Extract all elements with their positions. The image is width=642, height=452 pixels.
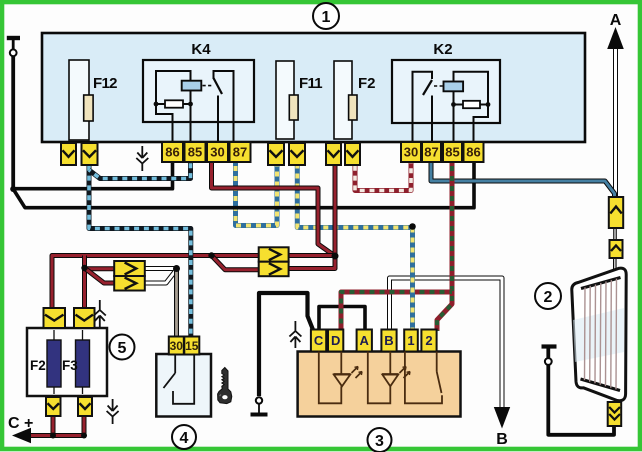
wire red-green K2-85 down to switch terminal 2	[437, 156, 452, 331]
connector block5 bottom D	[78, 397, 92, 416]
terminal 87 of K2	[422, 142, 441, 162]
svg-text:F2: F2	[30, 358, 46, 373]
svg-text:2: 2	[425, 333, 432, 348]
ground symbol block5 top	[94, 300, 106, 327]
fuse holder lines	[54, 330, 83, 394]
wire yellow-blue K4-87 to fuse F11 connector	[236, 156, 278, 226]
wire red junction to pack C1 bottom	[85, 268, 115, 283]
wire red-white fuse F2 connector to K2-30	[355, 156, 411, 191]
connector under F2 left	[326, 143, 341, 165]
wire white from switch pack C1 bottom to junction	[144, 270, 177, 284]
wire blue-black connector U2 down to ignition 15	[89, 156, 191, 340]
body ground top-left	[7, 38, 20, 56]
wire black element to body ground	[548, 348, 614, 435]
switch contact cell 1-2	[405, 352, 442, 404]
wire black ground to K2-86	[13, 156, 474, 208]
svg-text:86: 86	[165, 145, 179, 160]
terminal 85 of K2	[443, 142, 462, 162]
wire white from switch pack C1 top to junction (ignition feed)	[144, 266, 177, 271]
relay K4	[143, 41, 254, 142]
svg-text:1: 1	[407, 333, 414, 348]
svg-text:2: 2	[544, 289, 553, 306]
fuse F2 in block 5	[47, 340, 61, 387]
svg-text:F12: F12	[93, 75, 117, 92]
wire red K4-30 down to junction	[212, 156, 336, 256]
arrow C+ to battery	[8, 415, 33, 443]
wire black bridge C to A on switch 3	[319, 307, 365, 332]
connector U1 under F12	[61, 143, 76, 165]
node 5 circle label	[110, 335, 135, 360]
svg-text:F3: F3	[62, 358, 78, 373]
wire red main feed bus	[52, 256, 260, 311]
indicator LED cell A-B	[368, 352, 410, 404]
wire white from connector B of switch 3 to point B	[390, 278, 503, 408]
terminal 85 of K4	[185, 142, 206, 162]
fuse F3 in block 5	[76, 340, 90, 387]
junction dot red bus at C2	[208, 252, 214, 258]
terminal A of switch 3	[357, 330, 372, 352]
element grid lines	[585, 279, 617, 390]
indicator LED cell C-D	[319, 352, 362, 404]
connector under F11 right	[289, 143, 305, 165]
wire red junction into pack C2 bottom right	[288, 256, 335, 269]
junction dot red right	[332, 253, 339, 260]
connector U2 under F12	[82, 143, 98, 165]
terminal 30 of K4	[207, 142, 228, 162]
svg-text:5: 5	[118, 340, 127, 357]
arrow B	[494, 407, 510, 448]
wire red bus to fuse block connector B	[82, 256, 87, 311]
svg-text:4: 4	[180, 430, 189, 447]
wire red-green branch to switch terminal D	[341, 292, 452, 331]
junction dot white-grey	[173, 265, 180, 272]
wire link element connectors	[613, 228, 617, 273]
wire black switch 3 C to body ground	[259, 293, 314, 396]
connector under F2 right	[345, 143, 360, 165]
connector block5 top A	[44, 308, 66, 328]
connector pack C1 top	[114, 261, 145, 276]
terminal C of switch 3	[311, 330, 326, 352]
svg-text:30: 30	[170, 339, 184, 353]
wire white from point A down to element connector	[613, 46, 618, 197]
junction dot red feed left	[81, 265, 87, 271]
wire yellow-blue fuse F11 connector down to junction	[297, 156, 412, 228]
svg-text:86: 86	[466, 145, 480, 160]
svg-text:30: 30	[404, 145, 418, 160]
wire blue-black branch to K4-85	[89, 156, 191, 179]
svg-text:3: 3	[375, 433, 384, 450]
junction dot yellow-blue corner	[409, 223, 416, 230]
ground symbol under block 1	[136, 146, 148, 171]
wire red fuse F2 connector down to junction	[333, 156, 338, 256]
element bus bars	[581, 278, 621, 391]
node 2 circle label	[535, 283, 561, 309]
junction dot ground split	[10, 186, 16, 192]
node 3 circle label	[368, 428, 392, 452]
terminal 87 of K4	[230, 142, 251, 162]
key icon	[218, 368, 232, 404]
arrow A to battery	[607, 12, 624, 49]
terminal 30 of ignition switch	[169, 337, 184, 355]
svg-text:F11: F11	[299, 75, 322, 92]
fuse block 5 box	[27, 328, 107, 396]
svg-text:30: 30	[210, 145, 224, 160]
ignition switch 4 box	[156, 354, 211, 417]
connector pack C1 bottom	[114, 276, 145, 291]
connector under F11 left	[268, 143, 284, 165]
body ground for element 2	[542, 347, 557, 365]
svg-text:A: A	[360, 333, 370, 348]
fuse F2 (in block 1)	[334, 61, 376, 139]
wire yellow-blue junction down to switch terminal 1	[410, 228, 415, 332]
element connector E3	[608, 402, 622, 426]
svg-text:B: B	[384, 333, 393, 348]
fuse F12	[69, 60, 117, 140]
junction dot C+ right	[81, 433, 87, 439]
connector block5 bottom C	[46, 397, 61, 416]
junction dot C+ left	[50, 433, 56, 439]
svg-text:A: A	[610, 12, 622, 29]
body ground below switch 3 wire	[251, 397, 268, 414]
main block 1 box	[42, 33, 585, 142]
svg-text:K4: K4	[191, 41, 211, 58]
ground symbol left of switch 3	[289, 321, 301, 348]
connector pack C2 bottom	[259, 262, 289, 277]
svg-text:85: 85	[188, 145, 202, 160]
svg-text:K2: K2	[433, 41, 452, 58]
ground symbol block5 bottom	[107, 399, 119, 424]
svg-text:87: 87	[424, 145, 438, 160]
node 4 circle label	[172, 425, 196, 449]
element tint band	[573, 308, 624, 362]
wire black ground to K4-86	[13, 156, 172, 189]
terminal 86 of K4	[162, 142, 183, 162]
relay K2	[392, 41, 500, 142]
terminal 15 of ignition switch	[184, 337, 199, 355]
wire red bus branch to pack C2 bottom	[212, 256, 260, 270]
svg-text:85: 85	[445, 145, 459, 160]
svg-text:15: 15	[185, 339, 199, 353]
svg-text:87: 87	[233, 145, 247, 160]
element connector E2	[610, 240, 623, 258]
wire red junction to pack C1 top	[85, 266, 115, 271]
node 1 circle label	[313, 3, 339, 29]
heater switch 3 box	[298, 352, 461, 417]
wire red pack C2 top right to junction	[288, 253, 335, 258]
ignition switch contact	[164, 354, 195, 404]
terminal 1 of switch 3	[404, 330, 418, 352]
terminal 2 of switch 3	[421, 330, 436, 352]
wire grey from junction to ignition switch 30	[174, 269, 179, 341]
terminal 30 of K2	[401, 142, 421, 162]
wire blue K2-87 to element connector	[431, 156, 615, 198]
heated window element 2	[572, 268, 626, 401]
svg-text:C: C	[314, 333, 324, 348]
element connector E1	[609, 197, 623, 228]
svg-text:D: D	[331, 333, 340, 348]
svg-text:1: 1	[322, 9, 331, 26]
svg-text:C +: C +	[8, 415, 33, 432]
wire red fuse block outputs to C+	[30, 414, 84, 436]
svg-text:F2: F2	[358, 75, 376, 92]
ground wire from top-left body point	[11, 56, 15, 189]
terminal D of switch 3	[328, 330, 343, 352]
connector pack C2 top	[259, 247, 289, 261]
fuse F11	[276, 61, 322, 139]
terminal 86 of K2	[464, 142, 484, 162]
svg-text:B: B	[496, 431, 508, 448]
terminal B of switch 3	[381, 330, 396, 352]
connector block5 top B	[74, 308, 95, 328]
